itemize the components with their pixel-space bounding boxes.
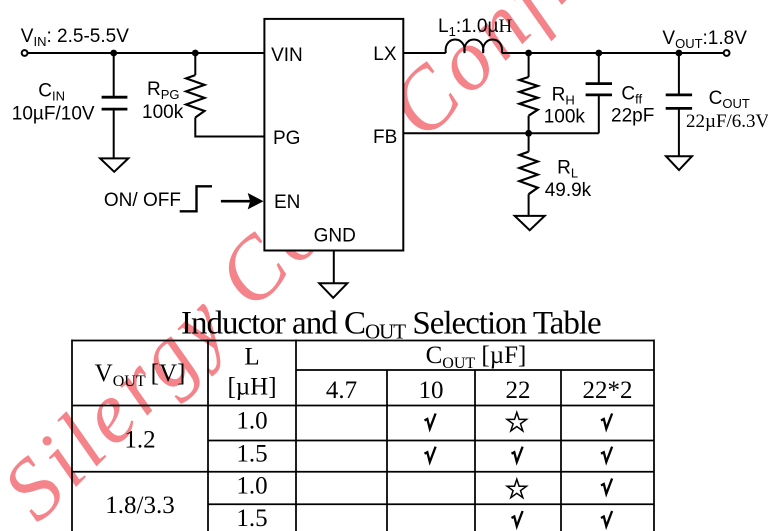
capacitor C_OUT plates	[666, 95, 692, 109]
svg-text:VIN: VIN	[271, 45, 303, 66]
wire LX to inductor	[403, 52, 446, 54]
svg-text:1.5: 1.5	[236, 441, 267, 468]
svg-text:[µH]: [µH]	[227, 374, 276, 401]
IC U1 body	[264, 19, 403, 251]
svg-text:100k: 100k	[544, 106, 586, 127]
svg-text:VIN: 2.5-5.5V: VIN: 2.5-5.5V	[21, 26, 129, 49]
svg-text:EN: EN	[274, 192, 300, 213]
input terminal circle	[22, 50, 28, 56]
junction node at R_H top	[525, 50, 532, 57]
svg-text:1.0: 1.0	[236, 408, 267, 435]
resistor R_PG zigzag	[186, 75, 204, 117]
ground symbol at C_IN	[100, 158, 128, 171]
star row1 col22	[507, 412, 526, 431]
wire R_PG to PG pin	[195, 118, 264, 137]
wire C_ff upper lead	[598, 53, 600, 84]
wire R_L upper lead	[528, 133, 530, 151]
wire R_H lower lead	[528, 116, 530, 134]
svg-text:4.7: 4.7	[326, 377, 357, 404]
wire C_ff lower lead	[598, 95, 600, 133]
ground symbol at GND pin	[319, 283, 347, 298]
junction node at R_PG	[192, 50, 199, 57]
capacitor C_IN plates	[102, 97, 128, 109]
resistor R_L zigzag	[519, 152, 537, 195]
wire C_OUT lower lead	[678, 108, 680, 156]
ground symbol at C_OUT	[666, 156, 692, 170]
svg-text:COUT [µF]: COUT [µF]	[426, 342, 527, 372]
wire R_L lower lead	[528, 194, 530, 216]
svg-text:VOUT:1.8V: VOUT:1.8V	[662, 28, 747, 51]
EN arrow	[221, 200, 250, 203]
wire R_PG upper lead	[194, 53, 196, 75]
wire VIN rail	[28, 52, 264, 54]
svg-text:RH: RH	[552, 85, 575, 108]
svg-text:CIN: CIN	[38, 81, 65, 104]
star row3 col22	[507, 479, 526, 498]
junction node at V_OUT	[676, 50, 683, 57]
svg-text:L: L	[244, 344, 259, 371]
wire C_IN lower lead	[113, 109, 115, 158]
junction node at C_IN	[110, 50, 117, 57]
check row2 col22	[512, 447, 523, 462]
svg-text:Cff: Cff	[621, 84, 642, 107]
check row1 col22*2	[601, 414, 612, 429]
svg-text:FB: FB	[373, 127, 397, 148]
svg-text:100k: 100k	[142, 102, 184, 123]
svg-text:RL: RL	[557, 158, 578, 181]
wire C_OUT upper lead	[678, 53, 680, 95]
capacitor C_ff plates	[586, 84, 612, 95]
junction node at FB divider	[525, 130, 532, 137]
svg-text:22: 22	[506, 377, 531, 404]
wire R_H upper lead	[528, 53, 530, 77]
wire C_IN upper lead	[113, 53, 115, 97]
check row2 col22*2	[601, 447, 612, 462]
wire FB rail	[403, 132, 599, 134]
check row4 col22*2	[601, 511, 612, 526]
inductor L1	[446, 40, 502, 54]
svg-text:1.0: 1.0	[236, 473, 267, 500]
check row3 col22*2	[601, 479, 612, 494]
svg-text:PG: PG	[273, 128, 300, 149]
wire output rail	[502, 52, 724, 54]
check row4 col22	[512, 511, 523, 526]
check row2 col10	[425, 447, 436, 462]
check row1 col10	[425, 414, 436, 429]
ground symbol at R_L	[515, 216, 545, 230]
svg-text:10µF/10V: 10µF/10V	[12, 104, 95, 125]
svg-text:1.2: 1.2	[124, 427, 155, 454]
junction node at C_ff top	[595, 50, 602, 57]
EN step symbol	[180, 186, 212, 211]
table grid	[72, 340, 654, 531]
svg-text:22*2: 22*2	[583, 377, 633, 404]
resistor R_H zigzag	[519, 77, 537, 116]
svg-text:Inductor and COUT Selection Ta: Inductor and COUT Selection Table	[181, 305, 601, 343]
wire GND pin lead	[333, 251, 335, 284]
output terminal circle	[724, 50, 730, 56]
svg-text:GND: GND	[314, 226, 356, 247]
svg-text:1.5: 1.5	[236, 505, 267, 531]
svg-text:1.8/3.3: 1.8/3.3	[105, 492, 174, 519]
svg-text:49.9k: 49.9k	[545, 180, 592, 201]
svg-text:22µF/6.3V: 22µF/6.3V	[686, 111, 768, 132]
svg-text:10: 10	[419, 377, 444, 404]
svg-text:ON/ OFF: ON/ OFF	[104, 190, 181, 211]
svg-text:22pF: 22pF	[611, 105, 654, 126]
svg-text:COUT: COUT	[709, 88, 750, 111]
svg-text:LX: LX	[373, 44, 397, 65]
svg-text:RPG: RPG	[147, 79, 180, 102]
